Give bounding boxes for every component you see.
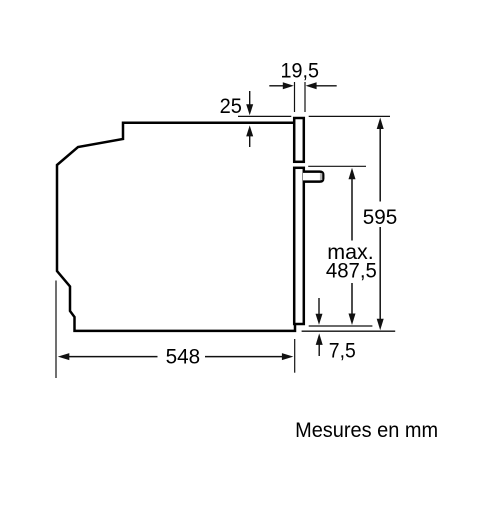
dimension 25 up arrow <box>246 125 253 147</box>
door panel (lower front frame) <box>294 168 304 324</box>
dimension 7,5 down arrow <box>316 298 323 325</box>
dimension 487,5 top extension line (handle level) <box>308 165 366 167</box>
bottom reference line B <box>302 330 396 332</box>
dimension 548 right extension line <box>294 339 296 373</box>
dimension 19,5 right arrow <box>306 82 337 89</box>
oven body outline <box>57 123 296 331</box>
dimension 548 line with arrows <box>58 353 294 360</box>
svg-text:7,5: 7,5 <box>329 339 356 363</box>
dimension 548 left extension line <box>55 281 57 379</box>
dimension 7,5 up arrow <box>316 333 323 356</box>
svg-text:548: 548 <box>166 345 201 369</box>
dimension 595 line with arrows <box>377 118 384 331</box>
door handle <box>303 172 323 182</box>
svg-text:Mesures en mm: Mesures en mm <box>295 418 438 442</box>
svg-text:595: 595 <box>363 205 398 229</box>
dimension 19,5 left arrow <box>269 82 294 89</box>
dimension 487,5 line with arrows <box>349 168 356 325</box>
dimension 25 reference line <box>238 115 291 117</box>
dimension 595 top extension line <box>309 115 390 117</box>
dimension 25 down arrow <box>246 91 253 115</box>
dimension 19,5 extension lines <box>295 82 306 112</box>
svg-text:19,5: 19,5 <box>281 59 320 83</box>
door bottom reference line A <box>309 325 373 327</box>
control panel (upper front frame) <box>294 118 304 162</box>
svg-text:25: 25 <box>220 94 242 118</box>
svg-text:487,5: 487,5 <box>326 259 377 283</box>
